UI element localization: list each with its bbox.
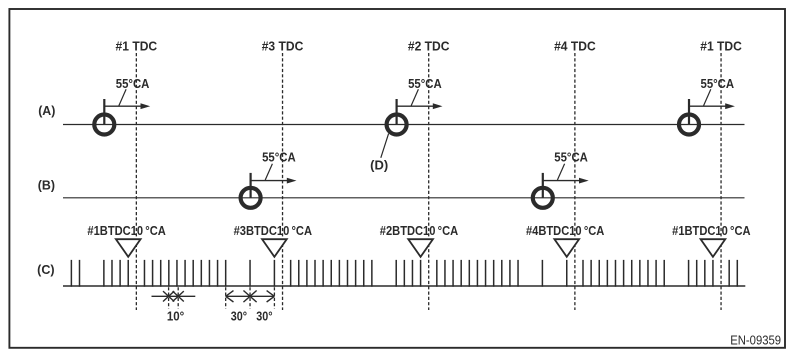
ignition mark circle B2 (533, 188, 553, 208)
leader A3 (704, 89, 711, 105)
svg-text:55°CA: 55°CA (262, 150, 296, 164)
tick A2 (396, 99, 398, 125)
marker triangle #1BTDC10 (701, 239, 726, 257)
svg-text:#2BTDC10 °CA: #2BTDC10 °CA (380, 224, 458, 238)
boundary dash dim30 right (273, 287, 275, 309)
svg-text:#1BTDC10 °CA: #1BTDC10 °CA (672, 224, 750, 238)
dashed line TDC2 (428, 53, 430, 310)
leader B2 (557, 164, 564, 180)
svg-text:#3BTDC10 °CA: #3BTDC10 °CA (234, 224, 312, 238)
arrow 55CA B1 (251, 180, 288, 182)
dashed line TDC1 (135, 53, 137, 310)
ignition mark circle A3 (679, 115, 699, 135)
tick A3 (688, 99, 690, 125)
dimension 30deg 30deg (226, 295, 275, 297)
svg-text:55°CA: 55°CA (701, 77, 735, 91)
leader D (381, 134, 389, 158)
svg-text:10°: 10° (167, 309, 184, 323)
arrow 55CA A3 (689, 105, 726, 107)
marker triangle #4BTDC10 (554, 239, 579, 257)
dashed line TDC4 (574, 53, 576, 310)
arrow 55CA A1 (104, 105, 141, 107)
svg-text:#4BTDC10 °CA: #4BTDC10 °CA (526, 224, 604, 238)
dimension 10deg (152, 295, 196, 297)
ignition mark circle A1 (94, 115, 114, 135)
leader A2 (411, 89, 418, 105)
svg-text:55°CA: 55°CA (554, 150, 588, 164)
ignition mark circle A2 (387, 115, 407, 135)
tick A1 (103, 99, 105, 125)
tick B2 (542, 173, 544, 198)
arrow 55CA B2 (543, 180, 580, 182)
svg-text:(D): (D) (370, 158, 388, 172)
svg-text:30°: 30° (231, 309, 247, 323)
svg-text:(B): (B) (38, 179, 55, 193)
marker triangle #1BTDC10 (116, 239, 141, 257)
svg-text:55°CA: 55°CA (116, 77, 150, 91)
svg-text:#2 TDC: #2 TDC (408, 38, 450, 53)
svg-text:#4 TDC: #4 TDC (554, 38, 596, 53)
boundary dash dim30 mid (249, 287, 251, 309)
crank signal teeth (C) (71, 260, 737, 287)
dashed line TDC3 (282, 53, 284, 310)
svg-text:#3 TDC: #3 TDC (262, 38, 304, 53)
svg-text:55°CA: 55°CA (408, 77, 442, 91)
svg-text:(C): (C) (37, 263, 54, 277)
svg-text:#1BTDC10 °CA: #1BTDC10 °CA (87, 224, 165, 238)
row line A (63, 124, 745, 126)
dashed line TDC1b (720, 53, 722, 310)
svg-text:(A): (A) (38, 104, 55, 118)
leader A1 (119, 89, 126, 105)
svg-text:EN-09359: EN-09359 (730, 333, 781, 347)
tick B1 (250, 173, 252, 198)
svg-text:#1 TDC: #1 TDC (700, 38, 742, 53)
arrow 55CA A2 (397, 105, 434, 107)
boundary dash dim10 right (177, 287, 179, 309)
boundary dash dim10 left (168, 287, 170, 309)
ignition mark circle B1 (241, 188, 261, 208)
boundary dash dim30 left (225, 287, 227, 309)
crank signal baseline (63, 285, 745, 287)
svg-text:#1 TDC: #1 TDC (116, 38, 158, 53)
marker triangle #3BTDC10 (262, 239, 287, 257)
marker triangle #2BTDC10 (408, 239, 433, 257)
svg-text:30°: 30° (256, 309, 272, 323)
row line B (63, 197, 745, 199)
leader B1 (265, 164, 272, 180)
